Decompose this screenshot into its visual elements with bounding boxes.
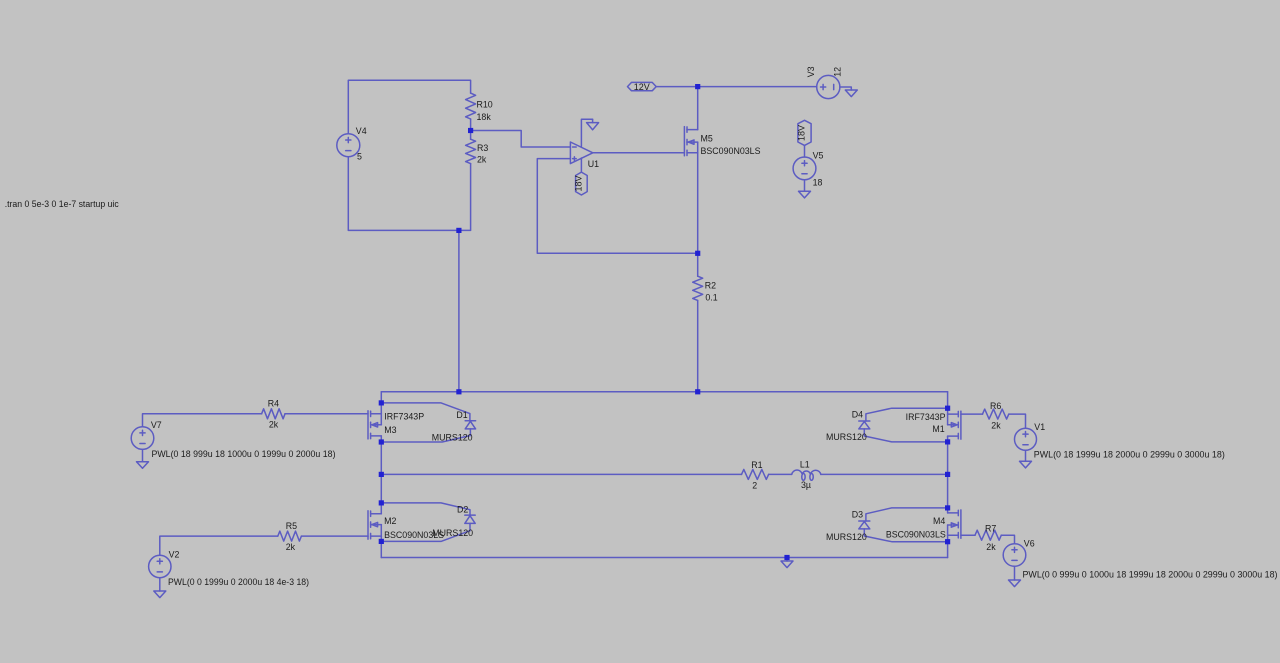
svg-text:U1: U1 [588,159,599,169]
svg-text:V5: V5 [813,151,824,161]
svg-text:PWL(0 18 1999u 18 2000u 0 2999: PWL(0 18 1999u 18 2000u 0 2999u 0 3000u … [1034,449,1225,459]
svg-text:18k: 18k [477,112,492,122]
svg-text:2: 2 [752,481,757,491]
svg-text:M1: M1 [932,424,944,434]
svg-text:MURS120: MURS120 [432,432,473,442]
svg-text:IRF7343P: IRF7343P [906,412,946,422]
svg-text:M5: M5 [701,134,713,144]
svg-text:R4: R4 [268,398,279,408]
svg-text:MURS120: MURS120 [826,432,867,442]
svg-text:R10: R10 [477,100,493,110]
svg-text:5: 5 [357,151,362,161]
svg-text:PWL(0 18 999u 18 1000u 0 1999u: PWL(0 18 999u 18 1000u 0 1999u 0 2000u 1… [152,449,336,459]
svg-text:2k: 2k [991,421,1001,431]
svg-text:V6: V6 [1024,538,1035,548]
svg-text:R2: R2 [705,280,716,290]
svg-text:V1: V1 [1034,422,1045,432]
svg-text:M4: M4 [933,516,945,526]
svg-text:2k: 2k [286,542,296,552]
svg-text:12V: 12V [634,82,650,92]
svg-text:M2: M2 [384,516,396,526]
svg-text:MURS120: MURS120 [432,528,473,538]
svg-text:L1: L1 [800,459,810,469]
svg-text:0.1: 0.1 [705,292,717,302]
svg-text:MURS120: MURS120 [826,532,867,542]
svg-text:12: 12 [832,67,842,77]
svg-text:18: 18 [813,177,823,187]
svg-text:.tran 0 5e-3 0 1e-7 startup ui: .tran 0 5e-3 0 1e-7 startup uic [5,199,120,209]
svg-text:2k: 2k [477,154,487,164]
svg-text:IRF7343P: IRF7343P [384,412,424,422]
svg-text:M3: M3 [384,425,396,435]
svg-text:R7: R7 [985,523,996,533]
svg-text:BSC090N03LS: BSC090N03LS [701,146,761,156]
svg-text:2k: 2k [986,542,996,552]
svg-text:D1: D1 [456,410,467,420]
svg-text:BSC090N03LS: BSC090N03LS [886,530,946,540]
svg-text:PWL(0 0 1999u 0 2000u 18 4e-3: PWL(0 0 1999u 0 2000u 18 4e-3 18) [168,577,309,587]
svg-text:3µ: 3µ [801,480,811,490]
svg-text:R6: R6 [990,401,1001,411]
svg-text:18V: 18V [573,175,583,191]
svg-text:V4: V4 [356,126,367,136]
svg-text:R1: R1 [751,460,762,470]
svg-text:2k: 2k [269,420,279,430]
svg-text:18V: 18V [797,125,807,141]
svg-text:R5: R5 [286,521,297,531]
svg-text:V3: V3 [806,66,816,77]
svg-text:V7: V7 [151,420,162,430]
svg-text:D2: D2 [457,505,468,515]
svg-text:PWL(0 0 999u 0 1000u 18 1999u: PWL(0 0 999u 0 1000u 18 1999u 18 2000u 0… [1023,569,1278,579]
svg-text:D4: D4 [852,409,863,419]
svg-text:V2: V2 [169,550,180,560]
svg-text:R3: R3 [477,143,488,153]
svg-text:D3: D3 [852,509,863,519]
